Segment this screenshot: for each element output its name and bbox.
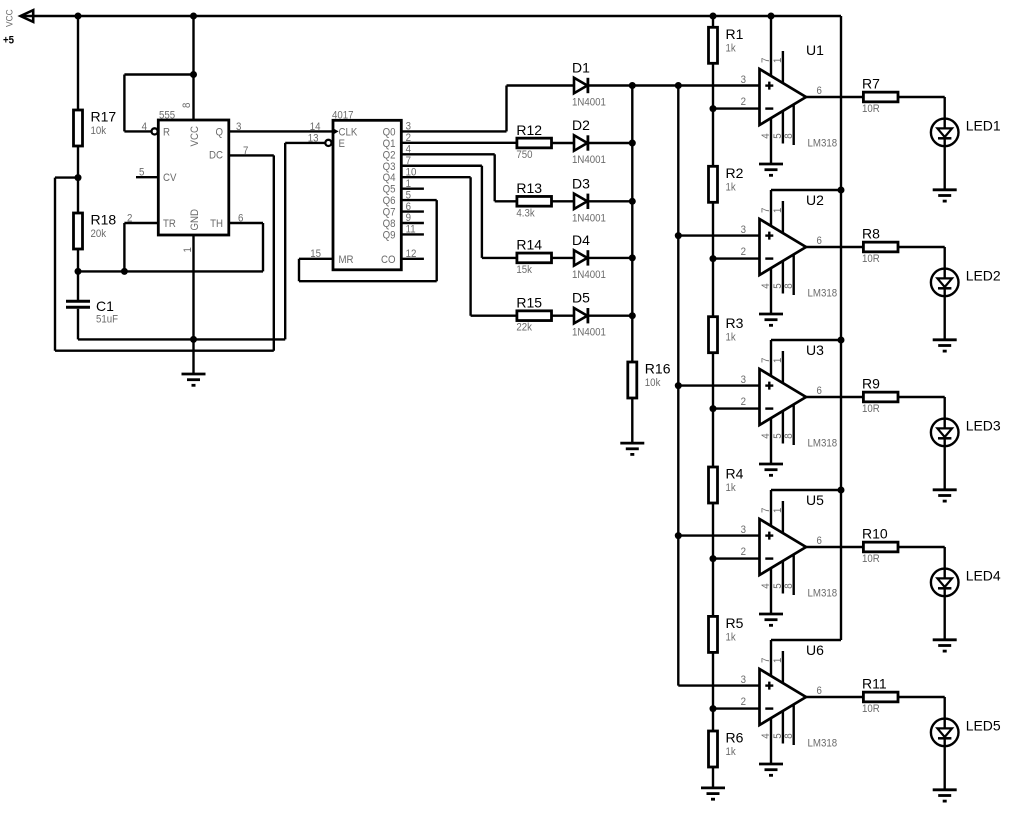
svg-text:6: 6 <box>817 536 823 548</box>
svg-text:4017: 4017 <box>332 110 354 122</box>
svg-text:3: 3 <box>741 224 747 236</box>
svg-text:8: 8 <box>784 283 796 289</box>
svg-text:C1: C1 <box>96 298 114 314</box>
svg-text:1k: 1k <box>726 747 737 759</box>
svg-text:750: 750 <box>516 150 532 162</box>
svg-text:D3: D3 <box>572 175 590 191</box>
svg-text:R8: R8 <box>862 226 880 242</box>
svg-text:4: 4 <box>761 283 773 289</box>
svg-text:1: 1 <box>183 247 195 253</box>
svg-text:8: 8 <box>784 433 796 439</box>
svg-text:4: 4 <box>761 733 773 739</box>
svg-text:10R: 10R <box>862 104 880 116</box>
svg-text:LED5: LED5 <box>966 718 1001 734</box>
svg-text:LED3: LED3 <box>966 418 1001 434</box>
svg-text:TH: TH <box>210 219 223 231</box>
svg-text:5: 5 <box>139 167 145 179</box>
svg-text:R11: R11 <box>862 676 887 692</box>
svg-text:10R: 10R <box>862 404 880 416</box>
svg-text:Q4: Q4 <box>383 173 396 185</box>
svg-text:14: 14 <box>310 122 321 134</box>
svg-text:6: 6 <box>817 236 823 248</box>
svg-text:4: 4 <box>142 122 148 134</box>
svg-text:LM318: LM318 <box>808 738 838 750</box>
svg-text:Q8: Q8 <box>383 219 396 231</box>
svg-text:3: 3 <box>741 524 747 536</box>
svg-text:1N4001: 1N4001 <box>572 269 606 281</box>
svg-text:R15: R15 <box>516 295 542 311</box>
svg-text:CO: CO <box>381 254 396 266</box>
svg-text:1: 1 <box>773 657 785 663</box>
svg-text:1k: 1k <box>726 483 737 495</box>
svg-text:2: 2 <box>741 396 747 408</box>
svg-text:8: 8 <box>784 583 796 589</box>
svg-text:10k: 10k <box>91 126 107 138</box>
svg-text:+5: +5 <box>3 35 14 47</box>
svg-text:1k: 1k <box>726 182 737 194</box>
svg-text:12: 12 <box>406 249 417 261</box>
svg-text:R16: R16 <box>645 361 671 377</box>
svg-text:4: 4 <box>761 133 773 139</box>
svg-text:8: 8 <box>784 133 796 139</box>
svg-text:R2: R2 <box>726 165 744 181</box>
svg-text:1k: 1k <box>726 332 737 344</box>
svg-text:D4: D4 <box>572 232 590 248</box>
svg-text:U6: U6 <box>806 642 824 658</box>
svg-text:10R: 10R <box>862 704 880 716</box>
svg-text:MR: MR <box>339 254 354 266</box>
svg-text:20k: 20k <box>91 229 107 241</box>
svg-text:R18: R18 <box>91 212 117 228</box>
svg-text:Q9: Q9 <box>383 230 396 242</box>
svg-text:10R: 10R <box>862 554 880 566</box>
svg-text:R12: R12 <box>516 122 542 138</box>
svg-text:Q2: Q2 <box>383 150 396 162</box>
svg-text:2: 2 <box>741 546 747 558</box>
svg-text:R: R <box>163 127 170 139</box>
svg-text:7: 7 <box>761 57 773 63</box>
svg-text:R17: R17 <box>91 109 117 125</box>
svg-text:22k: 22k <box>516 322 532 334</box>
svg-text:2: 2 <box>741 246 747 258</box>
svg-text:Q1: Q1 <box>383 138 396 150</box>
svg-text:1: 1 <box>773 207 785 213</box>
svg-text:R9: R9 <box>862 376 880 392</box>
svg-text:1k: 1k <box>726 43 737 55</box>
svg-text:E: E <box>339 138 346 150</box>
svg-text:15k: 15k <box>516 264 532 276</box>
svg-text:3: 3 <box>741 374 747 386</box>
svg-text:8: 8 <box>784 733 796 739</box>
svg-text:1N4001: 1N4001 <box>572 213 606 225</box>
svg-text:LED1: LED1 <box>966 118 1001 134</box>
svg-text:R4: R4 <box>726 466 744 482</box>
svg-text:6: 6 <box>817 386 823 398</box>
svg-text:LM318: LM318 <box>808 438 838 450</box>
svg-text:2: 2 <box>127 213 133 225</box>
svg-text:1N4001: 1N4001 <box>572 327 606 339</box>
svg-text:1: 1 <box>773 357 785 363</box>
svg-text:10R: 10R <box>862 254 880 266</box>
svg-text:Q0: Q0 <box>383 127 396 139</box>
svg-text:6: 6 <box>817 686 823 698</box>
svg-text:R6: R6 <box>726 730 744 746</box>
svg-text:13: 13 <box>308 133 319 145</box>
svg-text:1N4001: 1N4001 <box>572 97 606 109</box>
svg-text:D2: D2 <box>572 117 590 133</box>
svg-text:R14: R14 <box>516 237 542 253</box>
svg-text:6: 6 <box>238 213 244 225</box>
svg-text:R1: R1 <box>726 26 744 42</box>
svg-text:3: 3 <box>741 74 747 86</box>
svg-text:5: 5 <box>773 283 785 289</box>
svg-text:1: 1 <box>773 507 785 513</box>
svg-text:5: 5 <box>773 583 785 589</box>
svg-text:5: 5 <box>773 733 785 739</box>
svg-text:CV: CV <box>163 173 177 185</box>
svg-text:U2: U2 <box>806 192 824 208</box>
svg-text:8: 8 <box>182 102 194 108</box>
svg-text:4.3k: 4.3k <box>516 208 535 220</box>
svg-text:555: 555 <box>159 110 175 122</box>
svg-text:DC: DC <box>209 150 223 162</box>
svg-text:5: 5 <box>773 133 785 139</box>
svg-text:U5: U5 <box>806 492 824 508</box>
svg-text:7: 7 <box>761 657 773 663</box>
svg-text:R13: R13 <box>516 180 542 196</box>
svg-text:VCC: VCC <box>4 9 15 27</box>
svg-text:Q7: Q7 <box>383 207 396 219</box>
svg-text:U1: U1 <box>806 42 824 58</box>
svg-text:D5: D5 <box>572 290 590 306</box>
svg-text:7: 7 <box>761 207 773 213</box>
svg-text:D1: D1 <box>572 60 590 76</box>
svg-text:4: 4 <box>761 583 773 589</box>
svg-text:LM318: LM318 <box>808 588 838 600</box>
svg-text:3: 3 <box>236 122 242 134</box>
svg-text:LM318: LM318 <box>808 288 838 300</box>
svg-text:4: 4 <box>761 433 773 439</box>
svg-text:Q6: Q6 <box>383 196 396 208</box>
svg-text:6: 6 <box>817 86 823 98</box>
svg-text:LM318: LM318 <box>808 138 838 150</box>
svg-text:Q5: Q5 <box>383 184 396 196</box>
svg-text:Q: Q <box>215 127 223 139</box>
svg-text:R5: R5 <box>726 615 744 631</box>
svg-text:2: 2 <box>741 696 747 708</box>
svg-text:7: 7 <box>243 146 249 158</box>
svg-text:U3: U3 <box>806 342 824 358</box>
svg-text:1: 1 <box>773 57 785 63</box>
svg-text:GND: GND <box>190 209 202 231</box>
svg-text:LED4: LED4 <box>966 568 1001 584</box>
svg-text:Q3: Q3 <box>383 161 396 173</box>
svg-text:2: 2 <box>741 96 747 108</box>
svg-text:5: 5 <box>773 433 785 439</box>
svg-text:R7: R7 <box>862 76 880 92</box>
svg-text:7: 7 <box>761 507 773 513</box>
svg-text:LED2: LED2 <box>966 268 1001 284</box>
svg-text:3: 3 <box>741 674 747 686</box>
svg-text:R10: R10 <box>862 526 888 542</box>
svg-text:10k: 10k <box>645 378 661 390</box>
svg-text:CLK: CLK <box>339 127 358 139</box>
svg-text:R3: R3 <box>726 315 744 331</box>
svg-text:1k: 1k <box>726 632 737 644</box>
svg-text:51uF: 51uF <box>96 314 118 326</box>
svg-text:VCC: VCC <box>190 126 202 147</box>
svg-text:TR: TR <box>163 219 176 231</box>
svg-text:1N4001: 1N4001 <box>572 155 606 167</box>
svg-text:7: 7 <box>761 357 773 363</box>
